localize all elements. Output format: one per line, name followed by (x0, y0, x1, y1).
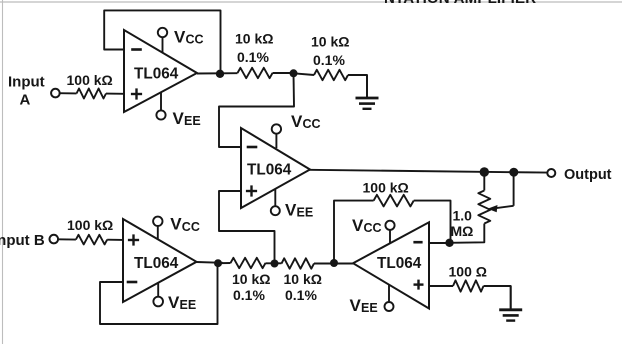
svg-text:0.1%: 0.1% (285, 287, 317, 303)
U1A inverting input - sign (131, 48, 142, 51)
svg-text:Input B: Input B (0, 232, 45, 249)
svg-text:0.1%: 0.1% (313, 52, 345, 68)
node: U1D inverting input junction (445, 239, 453, 247)
resistor R7 100 k feedback (374, 195, 414, 207)
Output terminal (547, 169, 555, 177)
svg-text:Input: Input (8, 74, 45, 91)
U1B inverting input - sign (247, 146, 258, 149)
svg-text:Output: Output (564, 167, 612, 183)
wire: U1C node to R5 (218, 262, 231, 264)
svg-text:100 Ω: 100 Ω (449, 264, 487, 280)
resistor R3 10 k 0.1% (238, 68, 273, 78)
svg-text:CC: CC (182, 220, 200, 234)
U1C non-inverting input + sign (128, 239, 139, 241)
U1A non-inverting input + sign (131, 93, 142, 95)
wire: R2 to U1C + input (107, 239, 123, 241)
wire: R6 to U1D output node (314, 263, 353, 265)
Input B terminal (50, 235, 59, 244)
resistor R6 10 k 0.1% (282, 258, 315, 268)
svg-text:1.0: 1.0 (453, 208, 473, 224)
svg-text:V: V (350, 296, 362, 315)
svg-text:10 kΩ: 10 kΩ (284, 271, 322, 287)
svg-text:TL064: TL064 (134, 255, 179, 272)
cropped page title (384, 0, 536, 7)
wire: R4 to ground (348, 75, 367, 98)
wire: U1D + input to R8 (429, 285, 453, 287)
op-amp U1C triangle (123, 219, 197, 302)
svg-text:V: V (291, 112, 303, 131)
wire: R5 to junction to R6 (266, 262, 282, 264)
node: trimmer top junction (480, 167, 489, 176)
svg-text:V: V (352, 216, 364, 235)
wire: R8 to ground (484, 286, 511, 310)
wire: U1B + input to bottom divider (219, 191, 275, 264)
svg-text:TL064: TL064 (377, 255, 422, 272)
wire: top node to U1B - input (219, 73, 294, 147)
wire: trimmer top lead (483, 172, 485, 191)
U1B non-inverting input + sign (246, 190, 257, 192)
page top rule (0, 1, 622, 3)
svg-text:V: V (173, 109, 185, 128)
svg-text:TL064: TL064 (134, 66, 179, 83)
page left edge (2, 0, 4, 344)
U1D non-inverting input + sign (414, 283, 424, 285)
resistor R4 10 k 0.1% (314, 70, 348, 80)
U1D VCC pin circle (385, 221, 394, 230)
svg-text:TL064: TL064 (247, 162, 292, 179)
op-amp U1B triangle (241, 128, 310, 208)
U1A VCC pin circle (158, 28, 167, 37)
U1C VEE pin circle (153, 297, 163, 307)
svg-text:EE: EE (297, 206, 314, 220)
op-amp U1D triangle (353, 222, 429, 308)
resistor R1 100 k (77, 89, 107, 99)
svg-text:100 kΩ: 100 kΩ (67, 217, 113, 233)
svg-text:CC: CC (364, 221, 382, 235)
svg-text:EE: EE (361, 301, 378, 315)
RP1 wiper arrow (513, 176, 515, 206)
svg-text:CC: CC (186, 33, 204, 47)
wire: Input B terminal to R2 (58, 238, 76, 240)
svg-text:CC: CC (303, 117, 321, 131)
wire: U1A feedback loop (104, 10, 220, 72)
node: bottom divider junction (271, 260, 279, 268)
wire: node to R4 (294, 73, 315, 75)
node: U1D output junction (330, 259, 338, 267)
U1B VEE pin circle (271, 206, 280, 215)
svg-text:10 kΩ: 10 kΩ (232, 271, 270, 287)
svg-text:A: A (20, 91, 31, 108)
ground symbol (top) (366, 75, 368, 98)
node: wiper junction (509, 168, 518, 177)
node: U1A output junction (216, 70, 224, 78)
node: U1C output junction (214, 259, 222, 267)
U1C VCC pin circle (153, 217, 162, 226)
wire: R1 to U1A + input (106, 93, 124, 95)
node: top divider junction (290, 69, 298, 77)
wire: U1D - input (429, 242, 450, 244)
Input A terminal (51, 89, 60, 98)
wire: R3 to node (273, 72, 294, 74)
U1D inverting input - sign (413, 241, 422, 244)
wire: Input A terminal to R1 (59, 92, 77, 94)
svg-text:V: V (285, 201, 297, 220)
U1B VCC pin circle (272, 124, 281, 133)
resistor R8 100 ohm (453, 280, 484, 291)
svg-text:V: V (170, 215, 182, 234)
svg-text:MΩ: MΩ (451, 223, 474, 239)
svg-text:V: V (168, 293, 180, 312)
svg-text:10 kΩ: 10 kΩ (235, 31, 273, 47)
potentiometer RP1 1.0 MΩ (478, 191, 490, 224)
wire: U1D output to R7 (334, 201, 374, 263)
wire: U1C feedback loop (100, 263, 218, 324)
U1C inverting input - sign (127, 281, 138, 284)
svg-text:100 kΩ: 100 kΩ (363, 180, 409, 196)
svg-text:0.1%: 0.1% (237, 49, 269, 65)
wire: U1C output (197, 261, 223, 264)
resistor R5 10 k 0.1% (231, 258, 266, 268)
op-amp U1A triangle (124, 30, 197, 112)
wire: U1B output to Output terminal (309, 170, 548, 173)
svg-text:0.1%: 0.1% (233, 287, 265, 303)
resistor R2 100 k (76, 235, 107, 245)
wire: R7 to U1D - input node (414, 201, 451, 243)
U1A VEE pin circle (156, 110, 165, 119)
U1D VEE pin circle (385, 302, 394, 311)
svg-text:EE: EE (180, 298, 197, 312)
svg-text:EE: EE (184, 114, 201, 128)
wire: U1A output (197, 72, 238, 74)
svg-text:V: V (174, 28, 186, 47)
svg-text:100 kΩ: 100 kΩ (67, 72, 113, 88)
ground symbol (bottom) (510, 286, 512, 310)
svg-text:10 kΩ: 10 kΩ (311, 34, 349, 50)
wire: trimmer bottom lead (450, 224, 485, 243)
